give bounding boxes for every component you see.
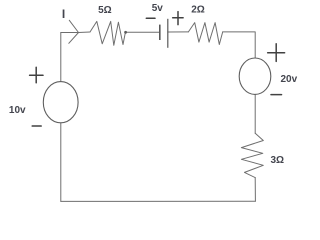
wire left side below 10v source (60, 123, 62, 201)
svg-text:2Ω: 2Ω (191, 5, 205, 16)
voltage source V3 20v (239, 58, 271, 94)
resistor R1 5ohm (90, 21, 125, 45)
junction node A dot (124, 31, 127, 34)
wire bottom (61, 200, 256, 202)
wire right side between 20v source and 3ohm resistor (254, 94, 256, 133)
battery V2 5v plate positive (long) (167, 19, 169, 48)
svg-text:20v: 20v (281, 74, 298, 85)
wire top-left segment (61, 31, 90, 34)
svg-text:10v: 10v (9, 105, 26, 116)
svg-text:I: I (62, 7, 65, 21)
resistor R2 2ohm (188, 23, 222, 45)
svg-text:5Ω: 5Ω (98, 5, 112, 16)
voltage source V1 10v (43, 82, 78, 123)
wire from 3ohm resistor to bottom-right corner (254, 178, 256, 202)
minus sign of V1 (32, 125, 41, 127)
minus sign of V2 battery (146, 17, 155, 19)
wire between 5ohm resistor and battery (125, 31, 159, 33)
plus sign of V2 battery (173, 12, 183, 25)
minus sign of V3 (271, 94, 282, 96)
svg-text:5v: 5v (152, 3, 164, 14)
svg-text:3Ω: 3Ω (271, 155, 285, 166)
plus sign of V3 (268, 44, 285, 62)
plus sign of V1 (30, 67, 43, 83)
wire between battery and 2ohm resistor (168, 31, 189, 33)
current arrow I (69, 20, 79, 43)
resistor R3 3ohm (241, 133, 263, 177)
wire left side above 10v source (60, 33, 62, 82)
battery V2 5v plate negative (short) (159, 25, 161, 40)
wire from 2ohm resistor to top-right corner (223, 32, 256, 58)
